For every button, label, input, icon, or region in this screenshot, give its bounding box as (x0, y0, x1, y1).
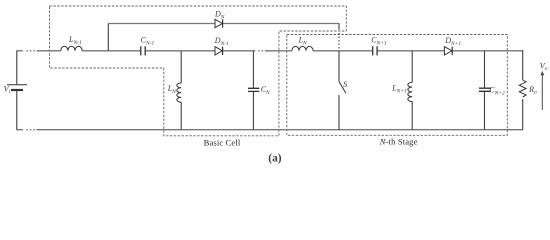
svg-text:LN: LN (167, 84, 176, 95)
svg-text:LN: LN (298, 36, 307, 47)
svg-text:DN+1: DN+1 (444, 36, 461, 47)
svg-text:LN-1: LN-1 (68, 35, 82, 46)
svg-text:N-th Stage: N-th Stage (379, 137, 418, 147)
svg-text:Vi: Vi (4, 85, 11, 96)
svg-text:Vo: Vo (540, 62, 548, 73)
svg-text:S: S (343, 80, 347, 89)
svg-text:Ro: Ro (528, 85, 537, 96)
svg-text:CN+1: CN+1 (371, 36, 387, 47)
svg-text:(a): (a) (268, 153, 281, 165)
svg-text:DN: DN (214, 10, 225, 21)
svg-text:LN+1: LN+1 (391, 84, 407, 95)
svg-text:Basic Cell: Basic Cell (204, 137, 241, 147)
svg-text:DN-1: DN-1 (214, 36, 229, 47)
svg-text:CN-1: CN-1 (141, 36, 155, 47)
svg-text:CN+2: CN+2 (489, 85, 505, 96)
svg-text:CN: CN (261, 85, 270, 96)
